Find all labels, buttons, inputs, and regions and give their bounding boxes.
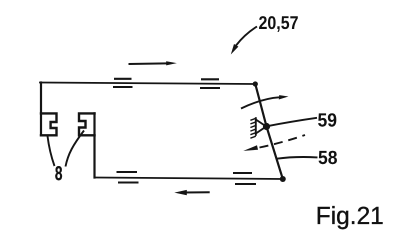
svg-text:Fig.21: Fig.21 xyxy=(316,203,384,230)
svg-text:8: 8 xyxy=(55,163,63,185)
svg-text:58: 58 xyxy=(318,148,338,169)
svg-text:59: 59 xyxy=(318,111,338,132)
svg-text:20,57: 20,57 xyxy=(259,12,299,33)
